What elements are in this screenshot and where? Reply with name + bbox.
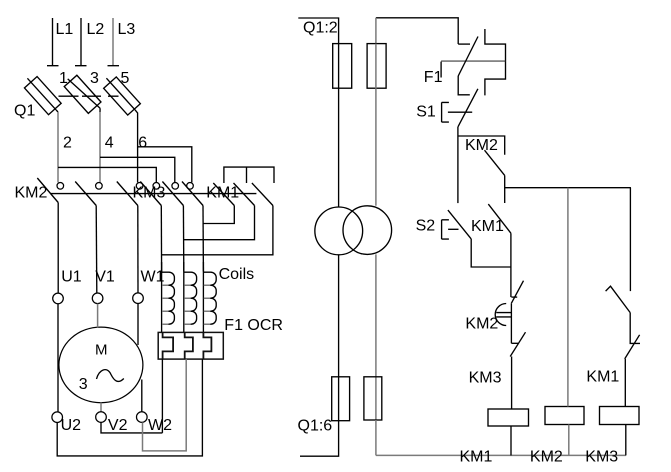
svg-text:W2: W2 (148, 417, 172, 434)
svg-text:L3: L3 (118, 21, 136, 38)
svg-text:U1: U1 (61, 269, 82, 286)
svg-text:Q1:6: Q1:6 (298, 417, 333, 434)
svg-text:KM3: KM3 (469, 370, 502, 387)
svg-text:S2: S2 (416, 218, 436, 235)
svg-text:U2: U2 (61, 417, 82, 434)
svg-text:2: 2 (63, 135, 72, 152)
svg-text:5: 5 (121, 70, 130, 87)
svg-text:F1: F1 (424, 69, 443, 86)
svg-text:Coils: Coils (219, 266, 255, 283)
svg-text:3: 3 (90, 70, 99, 87)
svg-text:S1: S1 (416, 104, 436, 121)
svg-text:KM2: KM2 (15, 185, 48, 202)
svg-text:KM1: KM1 (471, 218, 504, 235)
svg-text:1: 1 (59, 70, 68, 87)
svg-text:KM3: KM3 (133, 185, 166, 202)
svg-text:KM3: KM3 (585, 449, 618, 466)
svg-text:V1: V1 (95, 269, 115, 286)
svg-text:3: 3 (79, 376, 88, 393)
svg-text:F1 OCR: F1 OCR (224, 317, 283, 334)
svg-text:Q1:2: Q1:2 (303, 20, 338, 37)
svg-text:V2: V2 (108, 417, 128, 434)
svg-text:KM2: KM2 (465, 137, 498, 154)
svg-text:6: 6 (138, 135, 147, 152)
svg-text:KM1: KM1 (460, 449, 493, 466)
svg-text:KM2: KM2 (530, 449, 563, 466)
svg-text:KM2: KM2 (465, 316, 498, 333)
svg-text:M: M (95, 342, 108, 359)
svg-text:4: 4 (105, 135, 114, 152)
svg-text:KM1: KM1 (586, 368, 619, 385)
svg-text:Q1: Q1 (14, 103, 35, 120)
svg-text:L1: L1 (56, 21, 74, 38)
svg-text:L2: L2 (87, 21, 105, 38)
